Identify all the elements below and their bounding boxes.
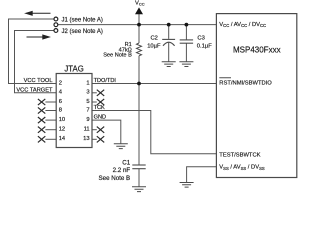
svg-text:7: 7 — [86, 107, 89, 113]
wire stub pin 13 — [92, 138, 97, 140]
svg-text:J1 (see Note A): J1 (see Note A) — [62, 18, 103, 24]
svg-text:TEST/SBWTCK: TEST/SBWTCK — [219, 152, 260, 158]
no-connect X pin 10 — [38, 117, 45, 123]
svg-text:VCC: VCC — [135, 0, 145, 6]
capacitor C3 — [180, 40, 193, 43]
wire stub pin 11 — [92, 129, 97, 131]
svg-text:C1: C1 — [122, 159, 130, 166]
svg-text:1: 1 — [86, 80, 89, 86]
ground (C3) — [179, 62, 193, 67]
wire stub pin 3 — [92, 92, 97, 94]
jumper J2 pin circle — [54, 29, 58, 33]
wire C3 drop from rail — [185, 25, 187, 62]
node junction dot C3 on rail — [185, 23, 189, 27]
svg-text:9: 9 — [86, 117, 89, 123]
wire VSS to ground — [187, 167, 217, 183]
svg-text:2: 2 — [59, 80, 62, 86]
connector JTAG box — [56, 74, 92, 148]
svg-text:13: 13 — [83, 136, 89, 142]
svg-text:See Note B: See Note B — [99, 175, 131, 182]
svg-text:See Note B: See Note B — [103, 53, 132, 59]
svg-text:RST/NMI/SBWTDIO: RST/NMI/SBWTDIO — [219, 81, 272, 87]
svg-text:TDO/TDI: TDO/TDI — [94, 78, 117, 84]
ground (C1) — [132, 187, 146, 192]
svg-text:4: 4 — [59, 90, 63, 96]
svg-text:JTAG: JTAG — [64, 64, 83, 73]
svg-text:2.2 nF: 2.2 nF — [113, 167, 131, 174]
capacitor C2 (polarized) — [162, 39, 175, 45]
svg-text:8: 8 — [59, 107, 62, 113]
svg-text:C3: C3 — [197, 35, 204, 41]
wire stub pin 14 — [45, 138, 56, 140]
wire stub pin 8 — [45, 110, 56, 112]
wire J2 bottom: from jumper pin left, down, to JTAG pin 4 — [15, 31, 57, 93]
power VCC arrow symbol — [135, 7, 143, 14]
arrow current flow right — [27, 35, 50, 39]
resistor R1 — [137, 43, 142, 56]
wire TDO/TDI to RST/NMI/SBWTDIO — [92, 83, 216, 85]
svg-text:5: 5 — [86, 99, 89, 105]
wire TCK to TEST/SBWTCK — [92, 111, 216, 154]
svg-text:VCC / AVCC / DVCC: VCC / AVCC / DVCC — [219, 22, 266, 28]
svg-text:VSS / AVSS / DVSS: VSS / AVSS / DVSS — [219, 165, 265, 171]
wire GND pin 9 to ground — [92, 120, 121, 144]
wire C2 drop from rail — [168, 25, 170, 62]
no-connect X pin 8 — [38, 107, 45, 113]
no-connect X pin 11 — [97, 127, 104, 133]
wire VCC rail — [58, 24, 217, 26]
svg-text:14: 14 — [59, 136, 66, 142]
no-connect X pin 3 — [97, 90, 104, 96]
no-connect X pin 12 — [38, 127, 45, 133]
svg-text:12: 12 — [59, 127, 65, 133]
wire stub pin 6 — [45, 101, 56, 103]
svg-text:10µF: 10µF — [147, 43, 161, 49]
ground (C2) — [162, 62, 176, 67]
svg-text:11: 11 — [84, 127, 90, 133]
svg-text:J2 (see Note A): J2 (see Note A) — [62, 29, 103, 35]
node junction dot C2 on rail — [167, 23, 171, 27]
node junction dot VCC/R1 on rail — [137, 23, 141, 27]
svg-text:VCC TOOL: VCC TOOL — [24, 78, 53, 84]
svg-text:C2: C2 — [151, 35, 158, 41]
wire stub pin 10 — [45, 119, 56, 121]
wire stub pin 12 — [45, 129, 56, 131]
jumper J1 pin circles — [54, 17, 58, 27]
wire J1 top: from jumper pin left, down, to JTAG pin 2 — [9, 19, 57, 84]
svg-text:6: 6 — [59, 99, 62, 105]
svg-text:10: 10 — [59, 117, 65, 123]
svg-text:0.1µF: 0.1µF — [197, 43, 212, 49]
no-connect X pin 13 — [97, 136, 104, 142]
no-connect X pin 5 — [97, 99, 104, 105]
node junction dot R1/TDO/TDI — [137, 82, 141, 86]
wire VCC stub under arrow — [138, 14, 140, 25]
svg-text:VCC TARGET: VCC TARGET — [16, 88, 53, 94]
no-connect X pin 6 — [38, 99, 45, 105]
no-connect X pin 14 — [38, 136, 45, 142]
svg-text:3: 3 — [86, 90, 89, 96]
wire node to C1 and ground — [138, 84, 140, 187]
arrow current flow left (top) — [26, 11, 51, 15]
IC U1 MSP430Fxxx box — [216, 14, 296, 178]
svg-text:MSP430Fxxx: MSP430Fxxx — [233, 45, 281, 54]
ground (JTAG pin 9) — [114, 144, 128, 149]
ground (VSS) — [180, 183, 194, 188]
svg-text:GND: GND — [94, 115, 106, 121]
svg-text:TCK: TCK — [94, 105, 105, 111]
capacitor C1 — [132, 165, 145, 169]
wire R1 vertical (VCC to TDO/TDI node) — [138, 25, 140, 84]
wire stub pin 5 — [92, 101, 97, 103]
